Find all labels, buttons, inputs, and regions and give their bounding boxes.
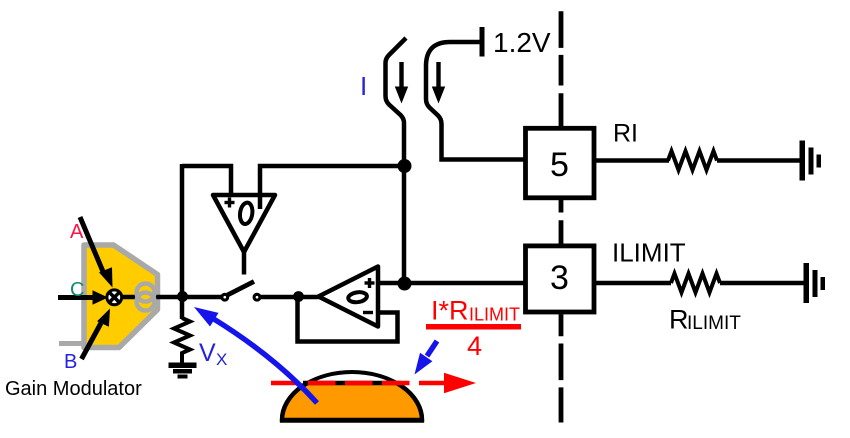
coil symbol (two circles) xyxy=(137,284,155,311)
node C arrowhead xyxy=(93,290,109,304)
current source to 1.2V xyxy=(426,42,525,160)
switch right contact xyxy=(254,294,260,300)
dashed net boundary line (above pin5) xyxy=(559,11,564,127)
node Vx junction dot xyxy=(177,291,188,302)
ground below Rx xyxy=(169,363,197,379)
op-amp U2 xyxy=(319,267,379,327)
op-amp U2 minus mark xyxy=(363,311,373,314)
gain modulator B lead stub xyxy=(59,341,84,346)
wire pin3 to resistor RILIMIT xyxy=(594,281,671,286)
svg-text:A: A xyxy=(70,221,84,243)
pin 3 box xyxy=(526,246,595,312)
svg-text:1.2V: 1.2V xyxy=(493,27,551,58)
input B arrow xyxy=(82,323,102,359)
wire C input lead xyxy=(58,295,93,300)
dashed net boundary line (below pin3) xyxy=(559,314,564,422)
gain modulator body xyxy=(84,245,158,348)
wire op-amp U1 output xyxy=(242,252,247,275)
svg-text:ILIMIT: ILIMIT xyxy=(687,313,741,334)
dome level chord (black) xyxy=(303,381,401,385)
svg-text:4: 4 xyxy=(467,331,482,361)
svg-text:R: R xyxy=(669,305,689,335)
wire multiplier output to node Vx xyxy=(114,295,184,300)
wire resistor to ground xyxy=(717,158,800,163)
switch left contact xyxy=(222,294,228,300)
svg-text:3: 3 xyxy=(550,259,569,297)
multiplier symbol xyxy=(107,290,122,305)
current source 2 arrow xyxy=(436,62,440,90)
dashed net boundary line (between pins) xyxy=(559,200,564,244)
op-amp U2 feedback loop xyxy=(298,297,398,342)
ground RI (rotated) xyxy=(800,141,822,181)
dome white cap xyxy=(282,372,422,420)
current source I arrow xyxy=(399,62,403,90)
op-amp U1 xyxy=(213,195,275,252)
resistor Rx vertical xyxy=(174,318,190,364)
red dashed level arrow xyxy=(271,381,445,386)
switch lever xyxy=(228,282,255,296)
blue arrow to dome level xyxy=(427,341,437,356)
1.2V terminal bar xyxy=(480,27,485,57)
node at U2 plus input xyxy=(398,277,412,291)
wire node Vx up to op-amp inputs xyxy=(180,164,185,297)
svg-text:B: B xyxy=(64,351,77,373)
input A arrow xyxy=(80,217,104,274)
svg-text:ILIMIT: ILIMIT xyxy=(469,305,520,325)
op-amp U1 plus mark xyxy=(225,198,235,208)
wire resistor to ground xyxy=(720,281,804,286)
op-amp U2 zero label xyxy=(348,291,368,303)
svg-text:5: 5 xyxy=(550,146,569,184)
blue arrow dome to node Vx xyxy=(213,319,317,404)
svg-text:X: X xyxy=(216,350,227,369)
wire node I down to op-amp U2 plus input xyxy=(402,166,407,283)
wire U2 plus input to pin 3 xyxy=(378,281,525,286)
node U2 output junction dot xyxy=(293,291,304,302)
op-amp U1 zero label xyxy=(239,202,254,225)
current source I xyxy=(386,38,407,166)
svg-text:RI: RI xyxy=(613,120,638,148)
op-amp U2 plus mark xyxy=(365,278,375,288)
dome orange fill below level xyxy=(282,372,422,420)
wire node Vx down to resistor xyxy=(180,297,185,319)
svg-text:I: I xyxy=(360,71,367,101)
svg-text:V: V xyxy=(199,339,216,367)
node I junction dot xyxy=(398,159,412,173)
dome bottom edge xyxy=(280,417,424,423)
wire pin5 to resistor RI xyxy=(594,158,669,163)
fraction bar xyxy=(426,324,521,330)
wire op-amp U1 plus-input horizontal xyxy=(182,166,231,197)
wire op-amp U1 minus-input to node I xyxy=(260,166,404,209)
pin 5 box xyxy=(526,128,595,198)
svg-text:Gain Modulator: Gain Modulator xyxy=(5,378,142,400)
wire node Vx to switch xyxy=(182,295,222,300)
resistor RILIMIT xyxy=(671,274,720,293)
resistor on RI net xyxy=(668,151,717,170)
svg-text:C: C xyxy=(70,279,84,301)
ground RILIMIT (rotated) xyxy=(804,263,826,303)
svg-text:I*R: I*R xyxy=(431,296,469,326)
wire switch to op-amp U2 output xyxy=(261,295,319,300)
svg-text:ILIMIT: ILIMIT xyxy=(612,238,686,268)
